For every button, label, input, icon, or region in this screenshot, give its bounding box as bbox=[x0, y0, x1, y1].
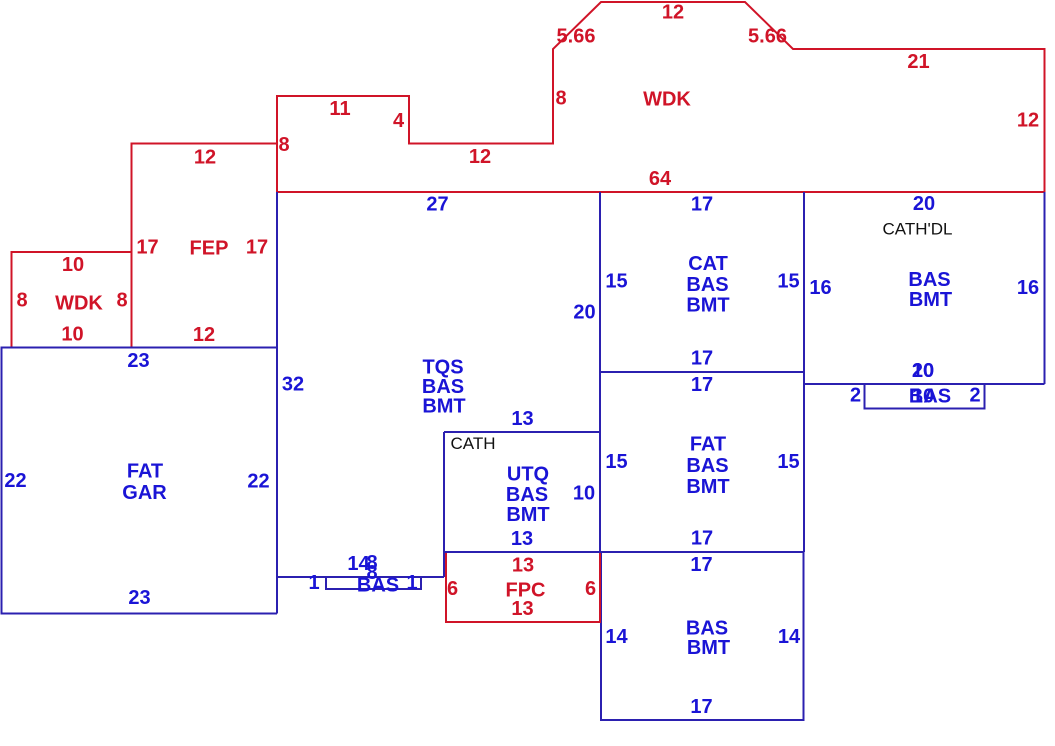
small BAS box right bbox=[865, 384, 985, 409]
bottom BAS BMT box bbox=[601, 552, 804, 720]
svg-text:23: 23 bbox=[127, 350, 149, 372]
svg-text:WDK: WDK bbox=[643, 89, 691, 111]
svg-text:17: 17 bbox=[136, 237, 158, 259]
svg-text:12: 12 bbox=[193, 324, 215, 346]
svg-text:2: 2 bbox=[969, 385, 980, 407]
FPC porch outline bbox=[446, 553, 600, 622]
svg-text:13: 13 bbox=[511, 528, 533, 550]
svg-text:22: 22 bbox=[247, 471, 269, 493]
CATH'DL right wall bbox=[1044, 192, 1046, 384]
svg-text:17: 17 bbox=[246, 237, 268, 259]
svg-text:CATH'DL: CATH'DL bbox=[883, 220, 953, 239]
svg-text:27: 27 bbox=[426, 194, 448, 216]
svg-text:8: 8 bbox=[278, 134, 289, 156]
svg-text:8: 8 bbox=[555, 88, 566, 110]
svg-text:BAS: BAS bbox=[909, 386, 951, 408]
svg-text:20: 20 bbox=[912, 360, 934, 382]
svg-text:BMT: BMT bbox=[422, 396, 465, 418]
svg-text:22: 22 bbox=[4, 470, 26, 492]
svg-text:5.66: 5.66 bbox=[557, 26, 596, 48]
svg-text:13: 13 bbox=[512, 555, 534, 577]
svg-text:20: 20 bbox=[573, 302, 595, 324]
svg-text:8: 8 bbox=[116, 290, 127, 312]
svg-text:17: 17 bbox=[690, 696, 712, 718]
svg-text:5.66: 5.66 bbox=[748, 26, 787, 48]
svg-text:8: 8 bbox=[16, 290, 27, 312]
FAT GAR outline bbox=[2, 348, 278, 614]
svg-text:10: 10 bbox=[573, 483, 595, 505]
svg-text:15: 15 bbox=[777, 451, 799, 473]
CATH room top wall bbox=[444, 431, 600, 433]
svg-text:12: 12 bbox=[1017, 110, 1039, 132]
svg-text:17: 17 bbox=[691, 374, 713, 396]
svg-text:BAS: BAS bbox=[357, 575, 399, 597]
small WDK deck outline bbox=[12, 252, 132, 348]
svg-text:64: 64 bbox=[649, 168, 672, 190]
svg-text:13: 13 bbox=[511, 408, 533, 430]
svg-text:WDK: WDK bbox=[55, 293, 103, 315]
svg-text:15: 15 bbox=[605, 451, 627, 473]
svg-text:FEP: FEP bbox=[190, 238, 229, 260]
svg-text:BMT: BMT bbox=[686, 476, 729, 498]
svg-text:17: 17 bbox=[691, 194, 713, 216]
svg-text:UTQ: UTQ bbox=[507, 464, 549, 486]
wall CAT/FAT separator bbox=[600, 371, 804, 373]
svg-text:BMT: BMT bbox=[687, 637, 730, 659]
svg-text:23: 23 bbox=[128, 587, 150, 609]
svg-text:10: 10 bbox=[62, 254, 84, 276]
wood deck WDK outline bbox=[277, 2, 1045, 192]
svg-text:BAS: BAS bbox=[506, 484, 548, 506]
house bottom wall 14ft bbox=[277, 576, 444, 578]
CATH'DL bottom wall bbox=[804, 383, 1045, 385]
svg-text:BMT: BMT bbox=[686, 295, 729, 317]
svg-text:CAT: CAT bbox=[688, 253, 728, 275]
svg-text:2: 2 bbox=[850, 385, 861, 407]
svg-text:12: 12 bbox=[469, 146, 491, 168]
svg-text:6: 6 bbox=[447, 578, 458, 600]
svg-text:BAS: BAS bbox=[908, 269, 950, 291]
svg-text:21: 21 bbox=[907, 51, 929, 73]
svg-text:17: 17 bbox=[690, 554, 712, 576]
svg-text:12: 12 bbox=[194, 147, 216, 169]
FEP porch outline bbox=[132, 144, 278, 348]
svg-text:1: 1 bbox=[308, 572, 319, 594]
svg-text:1: 1 bbox=[406, 572, 417, 594]
svg-text:13: 13 bbox=[511, 598, 533, 620]
house left wall bbox=[276, 192, 278, 614]
svg-text:CATH: CATH bbox=[450, 434, 495, 453]
svg-text:10: 10 bbox=[61, 324, 83, 346]
svg-text:17: 17 bbox=[691, 348, 713, 370]
svg-text:BAS: BAS bbox=[686, 455, 728, 477]
svg-text:11: 11 bbox=[329, 98, 350, 120]
svg-text:BAS: BAS bbox=[686, 274, 728, 296]
svg-text:32: 32 bbox=[282, 374, 304, 396]
svg-text:GAR: GAR bbox=[122, 482, 167, 504]
svg-text:BMT: BMT bbox=[506, 504, 549, 526]
interior wall TQS/CAT bbox=[599, 192, 601, 552]
svg-text:6: 6 bbox=[585, 578, 596, 600]
svg-text:17: 17 bbox=[691, 528, 713, 550]
svg-text:14: 14 bbox=[605, 626, 628, 648]
svg-text:BMT: BMT bbox=[909, 289, 952, 311]
svg-text:15: 15 bbox=[605, 271, 627, 293]
CATH room left wall bbox=[443, 432, 445, 577]
svg-text:16: 16 bbox=[809, 277, 831, 299]
svg-text:16: 16 bbox=[1017, 277, 1039, 299]
svg-text:14: 14 bbox=[778, 626, 801, 648]
svg-text:FAT: FAT bbox=[127, 461, 163, 483]
small BAS box left bbox=[326, 577, 421, 589]
svg-text:20: 20 bbox=[913, 193, 935, 215]
svg-text:12: 12 bbox=[662, 2, 684, 24]
svg-text:15: 15 bbox=[777, 271, 799, 293]
svg-text:FAT: FAT bbox=[690, 434, 726, 456]
svg-text:4: 4 bbox=[393, 110, 405, 132]
wall y552 bbox=[444, 551, 804, 553]
wall x804 bbox=[803, 192, 805, 552]
